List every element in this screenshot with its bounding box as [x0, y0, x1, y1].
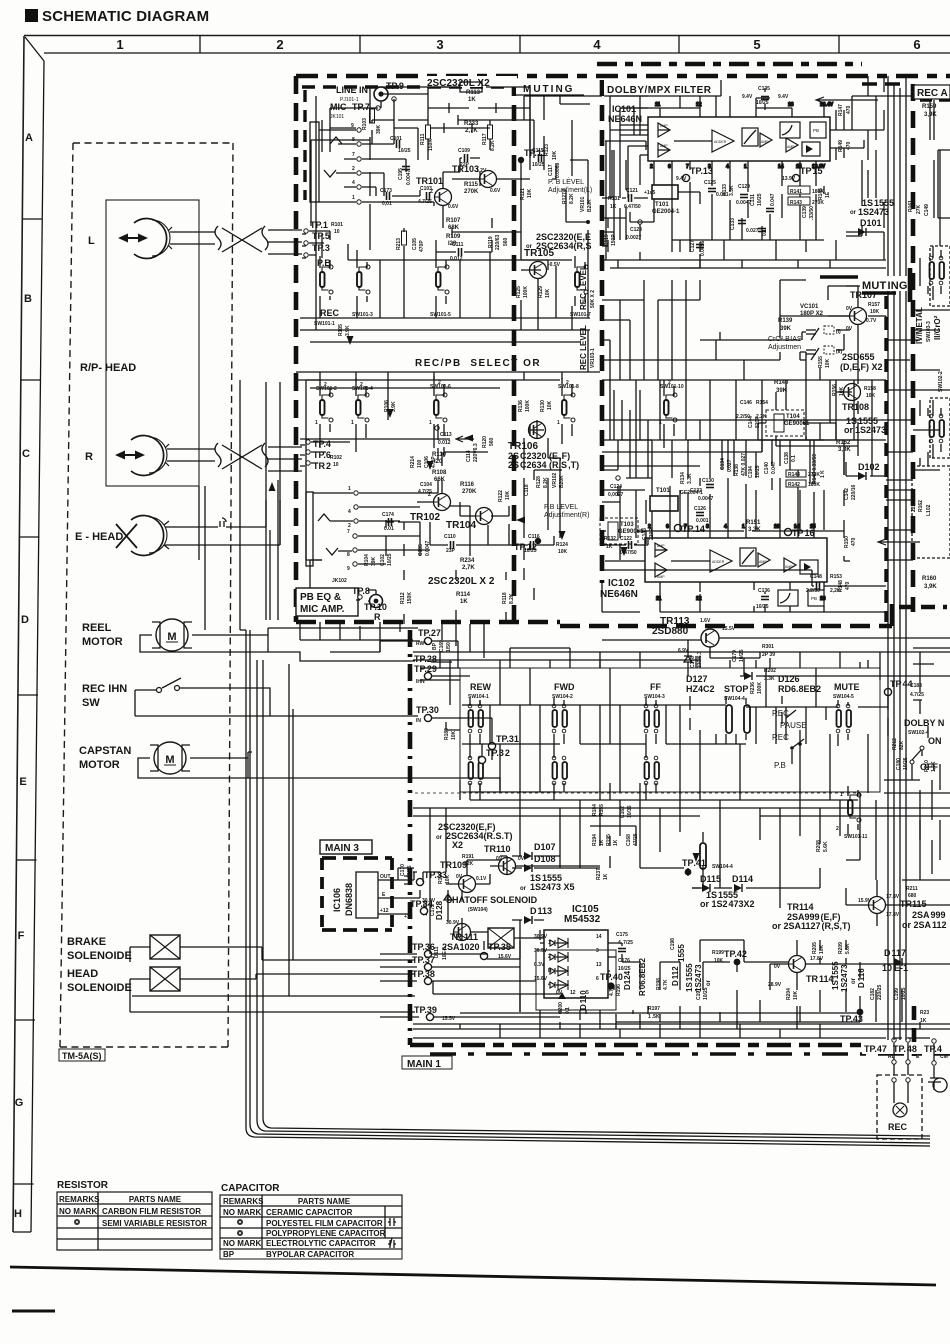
svg-text:66K: 66K: [434, 477, 446, 483]
svg-text:MOTOR: MOTOR: [79, 759, 120, 771]
capacitor C176 10/25: [618, 958, 631, 972]
svg-text:C127: C127: [690, 240, 696, 252]
switch matrix frame: [460, 668, 880, 792]
svg-text:P.B: P.B: [774, 761, 786, 770]
svg-text:10: 10: [334, 229, 340, 235]
svg-text:2: 2: [548, 954, 551, 960]
input pins lower connector JK102: [318, 486, 358, 572]
svg-text:2: 2: [352, 166, 355, 172]
component box cut at right edge (REC AMP parts): [912, 150, 950, 558]
svg-text:6.9V: 6.9V: [678, 648, 689, 654]
svg-text:4: 4: [726, 164, 729, 170]
capacitor C117 0.0068: [548, 162, 561, 178]
svg-text:3: 3: [706, 524, 709, 530]
svg-text:REC/PB SELECT OR: REC/PB SELECT OR: [415, 358, 541, 369]
test point TP.34: [404, 899, 433, 920]
svg-text:TP.32: TP.32: [486, 748, 510, 758]
label 2SC2320/2SC2634 (TR106): [508, 451, 579, 470]
svg-text:R194: R194: [592, 834, 598, 846]
resistor R123 10K: [544, 144, 558, 160]
capacitor C136 10/25: [756, 588, 770, 610]
svg-text:IN: IN: [416, 718, 421, 724]
svg-text:0.6V: 0.6V: [448, 204, 459, 210]
svg-text:10/25: 10/25: [757, 193, 763, 206]
svg-text:SW102-4: SW102-4: [908, 730, 929, 736]
solenoid shutoff box: [488, 928, 514, 948]
resistor R138 47K vertical: [734, 453, 747, 476]
svg-text:C131: C131: [750, 194, 756, 206]
capacitor C111 0.012: [450, 242, 464, 262]
transistor TR113 2SD880: [652, 616, 736, 647]
block divider dolby / rec-amp: [911, 84, 916, 612]
svg-text:10K: 10K: [866, 393, 876, 399]
zener 6.9V + C178: [678, 648, 703, 668]
svg-text:MUTING: MUTING: [862, 280, 908, 292]
wires: selector row network: [300, 376, 572, 624]
svg-text:1: 1: [352, 195, 355, 201]
svg-text:R101: R101: [331, 222, 343, 228]
transistor TR102: [410, 492, 451, 523]
capacitor C127 0.0056: [690, 240, 706, 256]
svg-text:470: 470: [846, 105, 852, 114]
switch capsule right lower (SW102): [929, 414, 944, 443]
wires: TR109-TR115 row: [413, 786, 950, 926]
svg-text:SCHEMATIC DIAGRAM: SCHEMATIC DIAGRAM: [42, 8, 209, 25]
label 2SC2320/2SC2634 X2 (TR109/110): [436, 822, 513, 850]
capacitor C142 220/16: [844, 484, 857, 500]
svg-text:R236: R236: [750, 682, 756, 694]
svg-text:or 2SA112: or 2SA112: [902, 920, 947, 930]
svg-text:0.1: 0.1: [791, 455, 797, 462]
resistor R105 3.9K: [338, 324, 351, 336]
wire: capstan motor leads: [138, 752, 500, 790]
svg-text:M54532: M54532: [564, 914, 601, 925]
svg-text:BYPOLAR CAPACITOR: BYPOLAR CAPACITOR: [266, 1250, 354, 1259]
svg-text:14: 14: [794, 524, 800, 530]
svg-text:0.1V: 0.1V: [476, 876, 487, 882]
resistor R140 39K: [774, 380, 789, 394]
resistor R129 10K: [538, 286, 551, 298]
board MAIN2 inner left doubled: [303, 90, 306, 200]
svg-text:2: 2: [668, 380, 671, 386]
svg-text:C105: C105: [412, 238, 418, 250]
svg-text:0V: 0V: [774, 964, 781, 970]
svg-text:D110: D110: [579, 990, 588, 1010]
svg-text:1555: 1555: [677, 944, 686, 962]
svg-text:5: 5: [753, 37, 760, 52]
svg-text:R123: R123: [544, 144, 550, 156]
svg-text:HEAD: HEAD: [67, 968, 98, 980]
svg-text:2SC2634(R,S: 2SC2634(R,S: [536, 241, 592, 251]
svg-text:10K: 10K: [552, 150, 558, 160]
svg-text:R116: R116: [460, 482, 475, 488]
IC106 package box: [356, 872, 378, 918]
svg-text:C136: C136: [758, 588, 770, 594]
svg-text:13: 13: [596, 962, 602, 968]
wire: L head to TP terminals with twist: [170, 226, 302, 254]
svg-text:R237: R237: [596, 868, 602, 880]
svg-text:1: 1: [348, 486, 351, 492]
svg-text:1: 1: [548, 940, 551, 946]
svg-text:1,8K: 1,8K: [931, 761, 937, 772]
svg-text:15.9V: 15.9V: [858, 898, 872, 904]
transistor TR110: [484, 844, 525, 875]
svg-text:RESISTOR: RESISTOR: [57, 1180, 109, 1191]
wires: dolby R network: [602, 440, 886, 612]
svg-text:BP: BP: [223, 1250, 235, 1259]
svg-text:ADDER: ADDER: [712, 560, 725, 564]
svg-text:TP.31: TP.31: [496, 734, 519, 744]
resistor R237 1K vertical: [596, 868, 609, 880]
svg-text:8.2K: 8.2K: [509, 593, 515, 604]
resistor R119 220/6.3: [488, 234, 509, 250]
svg-text:TM-5A(S): TM-5A(S): [62, 1051, 102, 1061]
test points TP.36 TP.37 TP.38: [412, 942, 448, 985]
op-amp A3 in IC101: [760, 133, 772, 147]
svg-text:14: 14: [596, 934, 602, 940]
transistor TR106: [508, 422, 546, 453]
resistor R103 39K: [362, 109, 382, 134]
svg-text:1: 1: [557, 420, 560, 426]
svg-text:DOLBY N: DOLBY N: [904, 718, 944, 728]
svg-text:D117: D117: [884, 948, 906, 958]
svg-text:10E-1: 10E-1: [442, 946, 448, 960]
svg-text:D124: D124: [623, 970, 632, 990]
svg-text:SW: SW: [82, 697, 100, 709]
resistor R118 8.2K vertical: [502, 592, 515, 604]
svg-text:TR115: TR115: [900, 899, 927, 909]
capacitor C119 150P: [604, 234, 617, 246]
svg-text:ADDER: ADDER: [714, 140, 727, 144]
resistor R149 470: [838, 140, 852, 152]
diode D107: [524, 842, 556, 860]
svg-text:470: 470: [851, 537, 857, 546]
svg-text:PARTS NAME: PARTS NAME: [298, 1197, 351, 1206]
svg-text:10K: 10K: [545, 288, 551, 298]
diode D114: [732, 874, 753, 892]
svg-text:C130: C130: [702, 478, 714, 484]
svg-text:B: B: [548, 968, 552, 974]
svg-text:TP15: TP15: [800, 166, 823, 176]
transformer T104 GE90061 dashed: [766, 410, 810, 436]
svg-text:R109: R109: [446, 234, 461, 240]
top ruler band: [24, 36, 950, 54]
svg-text:AMP: AMP: [787, 145, 795, 149]
TM-5A(S) label: [59, 1049, 105, 1061]
svg-text:DN6838: DN6838: [344, 883, 354, 916]
svg-text:150K: 150K: [428, 139, 434, 151]
svg-text:68K: 68K: [448, 225, 460, 231]
resistor R23x 1K: [920, 1010, 929, 1024]
wires: density fill right lower: [913, 648, 950, 874]
svg-text:TP.7: TP.7: [352, 102, 370, 112]
wire: reel motor to main board: [140, 628, 418, 661]
svg-text:10K: 10K: [505, 490, 511, 500]
capacitor C123 0.0027: [626, 220, 642, 241]
svg-text:13.9V: 13.9V: [782, 176, 796, 182]
svg-text:R115: R115: [464, 182, 479, 188]
svg-text:TR104: TR104: [446, 520, 476, 531]
board MAIN2 outline top: [296, 74, 950, 79]
wires: TR113 row: [602, 638, 950, 676]
svg-text:NO MARK: NO MARK: [223, 1239, 261, 1248]
svg-text:1: 1: [315, 420, 318, 426]
svg-text:C135: C135: [758, 86, 770, 92]
svg-text:10/25: 10/25: [532, 162, 545, 168]
svg-text:10K: 10K: [793, 990, 799, 1000]
capacitor C122 0.47/50: [604, 536, 637, 556]
capacitor C133 0.027: [730, 218, 759, 234]
head L (R/P head left channel): [118, 219, 172, 259]
svg-text:1K: 1K: [460, 599, 468, 605]
svg-text:C195: C195: [398, 168, 404, 180]
svg-text:NO MARK: NO MARK: [223, 1208, 261, 1217]
capacitor C179 10/25: [732, 649, 745, 662]
switch SW101-5: [430, 265, 451, 318]
IC105 driver diodes row 3: [548, 966, 568, 976]
op-amp B3 in IC102: [758, 553, 770, 567]
svg-text:TR114: TR114: [806, 974, 834, 984]
switch SW104-4b vertical capsule: [700, 843, 733, 870]
svg-text:VR101: VR101: [580, 196, 586, 212]
svg-text:R153: R153: [830, 574, 842, 580]
svg-text:C103: C103: [420, 186, 432, 192]
svg-text:C118: C118: [524, 484, 530, 496]
resistor R112 150K vertical: [400, 592, 413, 604]
svg-text:2: 2: [836, 826, 839, 832]
label DOLBY N SW102-4: [892, 718, 944, 772]
svg-text:1S1555: 1S1555: [685, 963, 694, 992]
svg-text:R197: R197: [648, 1006, 660, 1012]
diode D110 vertical: [558, 990, 588, 1010]
capacitor C103 4.7/25: [418, 186, 432, 205]
resistor R133 3.3K: [722, 184, 735, 196]
capacitor C143 220P vertical: [642, 528, 655, 540]
resistor R191 82K: [462, 854, 474, 867]
capacitor C134 0.027 vertical: [720, 458, 733, 472]
IC105 driver diodes row 4: [548, 980, 568, 990]
label 2SC2320/2SC2634 (TR105): [526, 232, 592, 251]
label P.B LEVEL Adjustment(L): [548, 177, 592, 194]
svg-text:BP: BP: [432, 642, 438, 650]
svg-text:TP.29: TP.29: [414, 664, 437, 674]
resistor R117 8.2K: [482, 125, 496, 151]
svg-text:0.0047: 0.0047: [406, 169, 412, 185]
switch SW104-1 pair: [468, 704, 483, 785]
board MAIN1 label: [402, 1056, 452, 1070]
svg-text:R196: R196: [616, 984, 622, 996]
svg-text:C126: C126: [694, 506, 706, 512]
svg-text:8.2K: 8.2K: [569, 193, 575, 204]
IC105 driver diodes row 1: [548, 938, 568, 948]
resistor R197 1.5K: [648, 1006, 660, 1020]
resistor R301 2P39: [762, 644, 775, 658]
svg-text:R211: R211: [906, 886, 918, 892]
resistor R144 270K box: [786, 470, 820, 478]
wires: mic amp upper network: [302, 82, 588, 318]
test point TP.12: [514, 538, 541, 552]
capacitor C118 0.0068: [524, 484, 530, 496]
svg-text:0V: 0V: [456, 874, 463, 880]
svg-text:R209: R209: [838, 942, 844, 954]
svg-text:or 1S2473X2: or 1S2473X2: [700, 899, 755, 909]
svg-text:R160: R160: [922, 576, 937, 582]
svg-text:2: 2: [360, 382, 363, 388]
svg-text:GE2004-1: GE2004-1: [652, 209, 680, 215]
svg-text:10K: 10K: [839, 386, 845, 396]
svg-text:10/25: 10/25: [756, 604, 769, 610]
adder amp in IC101: [712, 130, 734, 152]
capacitor C144 820P: [748, 416, 761, 428]
transistor TR101: [416, 176, 459, 210]
svg-text:3: 3: [596, 948, 599, 954]
IC105 pin labels: [534, 934, 602, 996]
svg-text:0.0047: 0.0047: [698, 496, 714, 502]
svg-text:REMARKS: REMARKS: [223, 1197, 264, 1206]
diode D116 + 1S1555/1S2473 vertical: [831, 961, 866, 992]
svg-text:R102: R102: [330, 455, 342, 461]
resistor R150 470: [844, 536, 857, 548]
svg-text:IC102: IC102: [608, 578, 635, 589]
svg-text:C132: C132: [690, 488, 702, 494]
svg-text:4: 4: [593, 37, 601, 52]
trimmer VR102 B20K: [552, 472, 565, 488]
arrow markers on wires: [269, 336, 700, 862]
svg-text:12: 12: [696, 596, 702, 602]
resistor R111 150K: [420, 125, 434, 151]
slope filter block in IC102: [778, 590, 798, 606]
svg-text:AMP: AMP: [660, 124, 668, 128]
svg-text:10K: 10K: [547, 400, 553, 410]
svg-text:R108: R108: [432, 470, 447, 476]
svg-text:TP.39: TP.39: [414, 1005, 437, 1015]
svg-text:10K: 10K: [558, 549, 568, 555]
svg-text:2.2/50: 2.2/50: [736, 414, 750, 420]
title: SCHEMATIC DIAGRAM: [25, 8, 209, 25]
svg-text:30.9V: 30.9V: [534, 934, 548, 940]
svg-text:16: 16: [788, 102, 794, 108]
svg-text:R184: R184: [592, 804, 598, 816]
resistor R136 100K vertical: [518, 400, 531, 412]
transistor TR107: [846, 290, 880, 332]
svg-text:R124: R124: [556, 542, 568, 548]
switch SW101-2: [315, 382, 337, 426]
svg-text:560: 560: [489, 437, 495, 446]
capacitor C196 0.0047: [418, 540, 431, 556]
svg-text:TR109: TR109: [440, 860, 467, 870]
wires: IC105 area: [380, 890, 950, 1029]
svg-text:D111: D111: [434, 946, 440, 958]
svg-text:1.2V: 1.2V: [476, 168, 487, 174]
svg-text:9.4V: 9.4V: [778, 94, 789, 100]
svg-text:10: 10: [774, 524, 780, 530]
svg-text:TP.9: TP.9: [386, 81, 404, 91]
svg-text:2SC2320L X 2: 2SC2320L X 2: [428, 576, 495, 587]
connector half-circles right edge: [933, 1078, 947, 1092]
jack PJ101 line in: [374, 87, 388, 101]
svg-text:1S2473 X5: 1S2473 X5: [530, 882, 575, 892]
diode D127 HZ4C2: [686, 674, 715, 694]
svg-text:R112: R112: [400, 592, 406, 604]
TM-5A(S) dashed enclosure: [60, 143, 233, 1047]
svg-text:C146: C146: [740, 400, 752, 406]
svg-text:470: 470: [846, 141, 852, 150]
resistor R145 1E: [818, 188, 831, 200]
test points TP.1 TP.5 TP.3: [304, 220, 343, 257]
slope filter block in IC101: [780, 122, 800, 138]
svg-text:15: 15: [810, 524, 816, 530]
svg-text:220/25: 220/25: [877, 984, 883, 1000]
resistor R131 1K / capacitor C121: [608, 188, 655, 210]
svg-text:R117: R117: [482, 133, 488, 145]
svg-text:2SA999: 2SA999: [912, 910, 946, 920]
svg-text:270K: 270K: [464, 189, 479, 195]
svg-text:C109: C109: [458, 148, 470, 154]
wires: IC105 region mesh: [433, 920, 920, 1029]
capacitor C135 10/25: [742, 86, 789, 106]
svg-text:9.4V: 9.4V: [676, 176, 687, 182]
svg-text:C138: C138: [784, 452, 790, 464]
svg-text:1 K: 1 K: [820, 470, 826, 478]
svg-text:PB EQ &: PB EQ &: [300, 592, 341, 603]
wires: dolby L network: [602, 76, 886, 268]
svg-text:R199: R199: [712, 950, 724, 956]
resistor R128 8.2K vertical: [536, 476, 549, 488]
svg-text:D107: D107: [534, 842, 556, 852]
svg-text:39K: 39K: [376, 124, 382, 134]
svg-text:R157: R157: [868, 302, 880, 308]
diode gate in IC101: [802, 142, 820, 156]
svg-text:TP.1: TP.1: [310, 220, 328, 230]
svg-text:TP.3: TP.3: [312, 243, 330, 253]
svg-text:SW104-4: SW104-4: [712, 864, 733, 870]
svg-text:TP.5: TP.5: [312, 231, 330, 241]
label IC101 NE646N: [608, 104, 642, 124]
wire: ground bus verticals to bottom right: [246, 630, 930, 1146]
resistor R206 10K + R208 5.6K vertical: [816, 840, 829, 852]
svg-text:MUTE: MUTE: [834, 682, 860, 692]
svg-text:R125: R125: [516, 286, 522, 298]
svg-text:CARBON FILM RESISTOR: CARBON FILM RESISTOR: [102, 1207, 201, 1216]
svg-text:1S2473: 1S2473: [840, 964, 849, 992]
svg-text:R134: R134: [680, 472, 686, 484]
IC102 pin stubs: [648, 524, 826, 602]
svg-text:3,9K: 3,9K: [924, 112, 937, 118]
svg-text:1K: 1K: [468, 97, 476, 103]
switch SW104-4 capsules: [726, 705, 750, 733]
wires: left bus risers into MAIN2: [132, 380, 930, 1136]
test point TP.16: [784, 528, 814, 538]
bottom separator thick line: [10, 1267, 936, 1285]
svg-text:ON: ON: [928, 736, 942, 746]
svg-text:8.2K: 8.2K: [490, 140, 496, 151]
diode D102: [858, 462, 880, 480]
transformer T103 GE90061 dashed: [600, 518, 644, 544]
diode near R202: [744, 672, 752, 680]
solenoid L2 head: [150, 967, 180, 991]
wires: dolby block long runs: [606, 76, 913, 268]
svg-text:VC101: VC101: [800, 304, 819, 310]
trimmer VC101 180PX2: [800, 304, 842, 360]
IC101 pin stubs: [650, 102, 834, 170]
svg-text:R113: R113: [466, 90, 481, 96]
diode D108: [524, 854, 556, 872]
svg-text:7: 7: [347, 529, 350, 535]
svg-text:14: 14: [778, 164, 784, 170]
svg-text:REC: REC: [320, 308, 340, 318]
svg-text:IC101: IC101: [612, 104, 636, 114]
resistor R106 3.9K vertical: [384, 400, 397, 412]
